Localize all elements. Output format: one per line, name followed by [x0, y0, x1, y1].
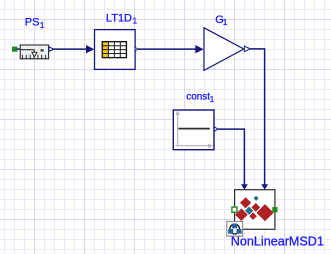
- svg-text:PS: PS: [25, 17, 40, 29]
- svg-text:1: 1: [223, 18, 228, 27]
- svg-text:NonLinearMSD1: NonLinearMSD1: [231, 235, 324, 249]
- svg-text:1: 1: [40, 21, 45, 30]
- svg-text:1: 1: [133, 16, 138, 25]
- svg-text:const: const: [186, 92, 210, 103]
- svg-text:1: 1: [210, 95, 215, 104]
- svg-text:LT1D: LT1D: [106, 12, 132, 24]
